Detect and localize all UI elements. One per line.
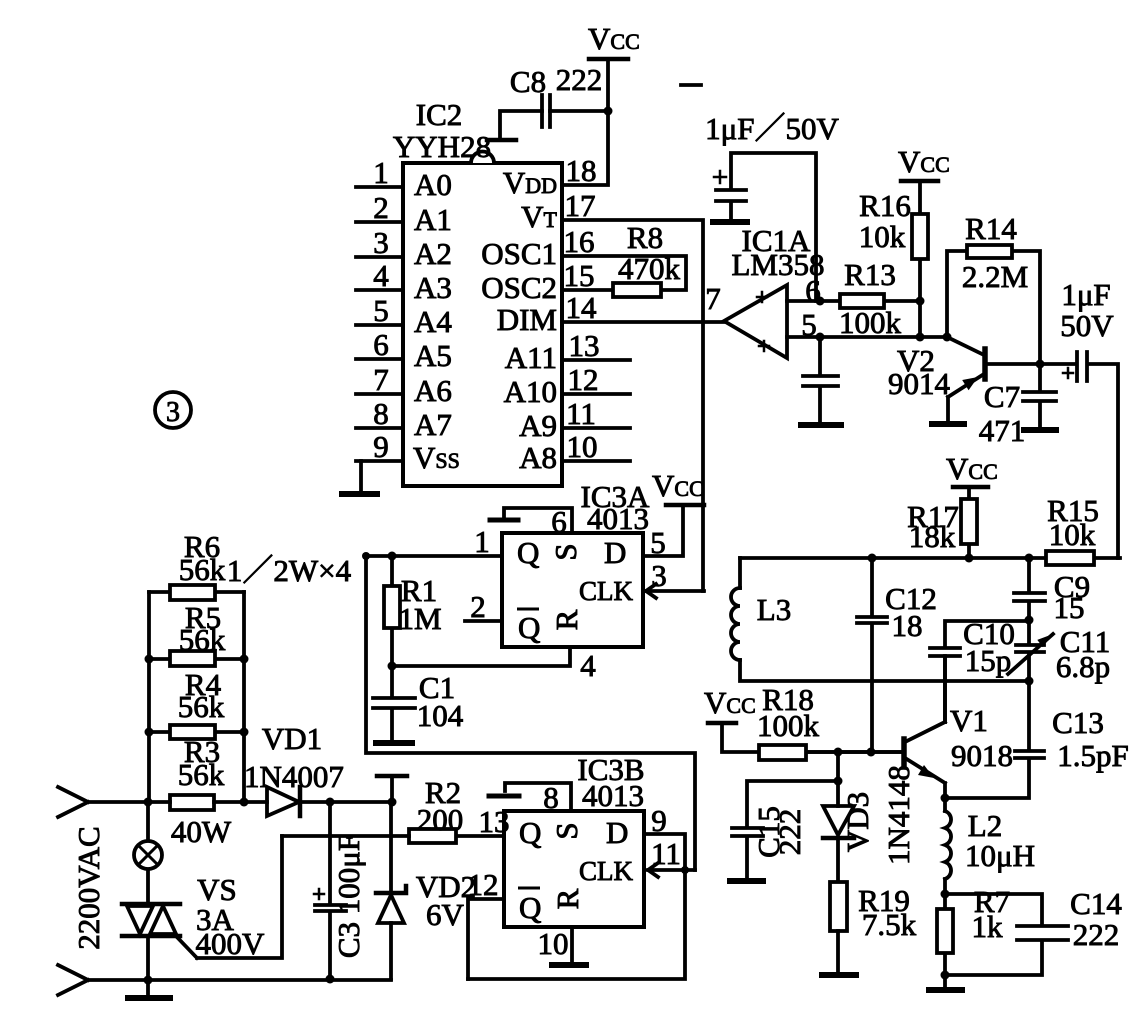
svg-text:A8: A8 [519,440,557,475]
svg-text:8: 8 [373,396,389,431]
svg-text:3: 3 [373,225,389,260]
svg-text:6V: 6V [426,897,465,932]
svg-text:5: 5 [801,307,817,342]
svg-text:A0: A0 [414,167,452,202]
svg-text:222: 222 [1073,917,1120,952]
svg-text:OSC2: OSC2 [481,270,557,305]
svg-text:1／2W×4: 1／2W×4 [227,553,352,588]
svg-text:C14: C14 [1070,886,1122,921]
svg-text:OSC1: OSC1 [481,236,557,271]
svg-text:1.5pF: 1.5pF [1057,738,1129,773]
svg-text:C13: C13 [1052,705,1104,740]
svg-text:10μH: 10μH [965,838,1035,873]
svg-text:10: 10 [567,429,598,464]
svg-text:400V: 400V [196,926,266,961]
svg-text:5: 5 [373,293,389,328]
svg-text:10: 10 [538,926,569,961]
svg-text:1: 1 [474,524,490,559]
svg-text:YYH28: YYH28 [393,129,491,164]
svg-text:A5: A5 [414,338,452,373]
svg-text:2: 2 [373,190,389,225]
svg-text:56k: 56k [178,689,225,724]
svg-text:222: 222 [556,62,603,97]
svg-text:9014: 9014 [888,366,951,401]
svg-text:104: 104 [417,698,464,733]
svg-text:56k: 56k [179,622,226,657]
svg-text:Q: Q [519,815,541,850]
svg-text:CLK: CLK [579,856,634,886]
svg-text:100k: 100k [839,305,902,340]
svg-text:A9: A9 [519,408,557,443]
svg-text:Q: Q [519,890,541,925]
svg-text:9: 9 [651,803,667,838]
svg-text:VD1: VD1 [262,721,322,756]
svg-text:A6: A6 [414,373,452,408]
svg-text:R8: R8 [627,220,663,255]
svg-text:10k: 10k [859,219,906,254]
svg-text:15: 15 [564,258,595,293]
svg-text:IC2: IC2 [416,97,463,132]
svg-text:6: 6 [551,504,567,539]
svg-text:6: 6 [805,273,821,308]
svg-text:VD3: VD3 [840,792,875,852]
svg-text:1N4007: 1N4007 [244,759,344,794]
svg-text:R: R [549,609,584,630]
svg-text:100k: 100k [757,708,820,743]
svg-text:A11: A11 [505,340,557,375]
svg-text:12: 12 [568,362,599,397]
svg-text:471: 471 [979,413,1026,448]
svg-text:2.2M: 2.2M [962,259,1028,294]
svg-text:15: 15 [1054,590,1085,625]
svg-text:DIM: DIM [497,302,557,337]
svg-text:D: D [606,815,628,850]
svg-text:V1: V1 [950,703,988,738]
svg-text:7.5k: 7.5k [862,907,917,942]
svg-text:1k: 1k [972,909,1004,944]
svg-text:1M: 1M [398,601,441,636]
svg-text:18: 18 [566,153,597,188]
svg-text:A7: A7 [414,407,452,442]
svg-text:222: 222 [772,809,807,856]
svg-text:1μF: 1μF [1061,277,1110,312]
svg-text:C7: C7 [984,379,1020,414]
svg-text:14: 14 [566,290,598,325]
svg-text:3: 3 [651,558,667,593]
svg-text:11: 11 [566,396,596,431]
svg-text:CLK: CLK [579,576,634,606]
svg-text:3: 3 [166,397,180,428]
svg-text:1N4148: 1N4148 [881,765,916,865]
svg-text:Q: Q [518,610,540,645]
svg-text:470k: 470k [618,251,681,286]
svg-text:50V: 50V [1060,308,1114,343]
svg-text:1: 1 [373,155,389,190]
svg-text:200: 200 [417,802,464,837]
svg-text:S: S [548,543,583,560]
svg-text:Q: Q [517,535,539,570]
svg-text:D: D [604,535,626,570]
svg-text:40W: 40W [171,814,232,849]
svg-text:A2: A2 [414,236,452,271]
svg-text:L3: L3 [757,592,791,627]
svg-text:4: 4 [373,258,389,293]
svg-text:6: 6 [373,327,389,362]
svg-text:17: 17 [565,188,596,223]
svg-text:2200VAC: 2200VAC [71,826,106,949]
svg-text:13: 13 [479,804,510,839]
svg-text:7: 7 [373,362,389,397]
svg-text:8: 8 [543,780,559,815]
svg-text:9018: 9018 [951,738,1013,773]
svg-text:R14: R14 [965,211,1017,246]
svg-text:C3 100μF: C3 100μF [331,834,366,958]
svg-text:15p: 15p [965,643,1012,678]
svg-text:A10: A10 [504,374,557,409]
svg-text:5: 5 [650,525,666,560]
svg-text:A3: A3 [414,270,452,305]
svg-text:13: 13 [569,328,600,363]
svg-text:6.8p: 6.8p [1056,649,1110,684]
svg-text:4: 4 [580,648,596,683]
svg-text:16: 16 [564,224,595,259]
svg-text:18k: 18k [909,519,956,554]
svg-text:4013: 4013 [587,501,649,536]
svg-text:11: 11 [651,836,681,871]
svg-text:18: 18 [892,608,923,643]
svg-text:7: 7 [705,281,721,316]
svg-text:R16: R16 [859,188,911,223]
svg-text:A1: A1 [414,202,452,237]
svg-text:C8: C8 [510,64,546,99]
svg-text:4013: 4013 [582,778,644,813]
svg-text:2: 2 [470,589,486,624]
svg-text:R13: R13 [844,257,896,292]
svg-text:10k: 10k [1049,517,1096,552]
svg-text:A4: A4 [414,304,452,339]
svg-text:R: R [550,888,585,909]
svg-text:S: S [549,822,584,839]
svg-text:1μF／50V: 1μF／50V [705,111,839,146]
svg-text:56k: 56k [178,757,225,792]
svg-text:9: 9 [373,429,389,464]
svg-text:56k: 56k [179,552,226,587]
